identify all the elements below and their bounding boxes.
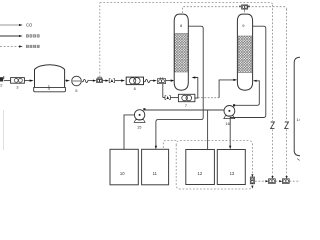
break Z 2	[285, 122, 289, 129]
wire meter to valve A1	[103, 80, 106, 82]
tank 10	[110, 149, 138, 185]
sampling meter E5	[279, 176, 289, 184]
dashed into tower 9 dome	[244, 11, 246, 14]
svg-text:15: 15	[137, 124, 142, 129]
wire A2 to pump 7	[171, 97, 179, 99]
tower8 overflow pipe to tank 11	[156, 26, 203, 146]
external analyzer loop line at right edge	[294, 57, 300, 155]
gas cylinder 2 (clipped at left edge)	[0, 76, 4, 88]
svg-text:14: 14	[297, 117, 301, 122]
faint left margin line	[2, 110, 4, 150]
top gas dashed line A	[100, 3, 273, 5]
wire to flowmeter 3	[4, 80, 11, 82]
valve A2	[165, 96, 170, 100]
branch down into tank 12	[207, 110, 209, 149]
svg-text:12: 12	[198, 171, 203, 176]
legend line CO	[0, 23, 33, 28]
wire tank4 to pump 5	[65, 80, 66, 82]
tank 12	[186, 150, 215, 185]
sampling meter E4	[265, 176, 275, 184]
svg-text:11: 11	[153, 171, 158, 176]
flex hose squiggle	[82, 79, 89, 82]
wire E2 to tower 8	[166, 80, 171, 82]
svg-text:CO: CO	[26, 23, 33, 28]
dashed line E3 to E4	[255, 180, 265, 182]
dashed stub to tank 11	[163, 141, 176, 150]
pump15 discharge to pump16	[146, 109, 224, 111]
dashed sampling riser 1 with break	[272, 5, 274, 121]
legend line gas	[0, 45, 40, 48]
tank 13	[217, 150, 245, 185]
gas meter on main line	[97, 77, 103, 82]
flowmeter 6	[126, 77, 143, 91]
gas meter E6 on line to tower 9	[239, 5, 250, 11]
flex hose squiggle 2	[144, 79, 151, 82]
dashed gas from tower8 top	[183, 7, 240, 13]
wire pump7 up into tower 8 right	[195, 78, 198, 99]
tank 11	[142, 149, 169, 185]
flowmeter 3	[11, 78, 25, 90]
svg-text:13: 13	[230, 171, 235, 176]
dashed line E4 to E5	[275, 180, 279, 182]
pump16 discharge into tower 9 right	[235, 81, 259, 106]
sampling meter E3 on enclosure edge	[250, 174, 254, 188]
wire to meter E1	[89, 80, 93, 82]
dashed sampling riser 2 with break	[286, 9, 288, 121]
wire valve A1 to flowmeter 6	[115, 80, 122, 82]
humidifier tank 4	[34, 65, 66, 92]
pump15 suction from tank 10	[124, 115, 134, 149]
break Z 1	[271, 122, 275, 129]
valve A1	[109, 79, 114, 83]
liquid pump 7	[178, 94, 195, 108]
gas sampling dashed riser at x=100	[99, 3, 101, 77]
circulating fan 5	[72, 76, 82, 93]
gas meter E2 before tower 8	[157, 77, 165, 83]
wire 3 to tank 4	[24, 80, 30, 82]
svg-text:10: 10	[120, 171, 125, 176]
absorption tower 8	[174, 14, 188, 90]
wire pump7 junction to tower 9 left	[198, 97, 219, 99]
legend line liquid	[0, 34, 40, 37]
absorption tower 9	[237, 14, 252, 90]
tower9 overflow pipe to tank 13	[230, 26, 266, 146]
dashed line E5 to edge	[289, 180, 300, 182]
circulation pump 15	[134, 108, 145, 129]
wire to meter E2	[151, 80, 153, 82]
branch down from E2	[162, 84, 164, 98]
dashed enclosure around tanks 12 13	[176, 141, 252, 189]
circulation pump 16	[224, 104, 235, 126]
svg-text:16: 16	[225, 121, 230, 126]
